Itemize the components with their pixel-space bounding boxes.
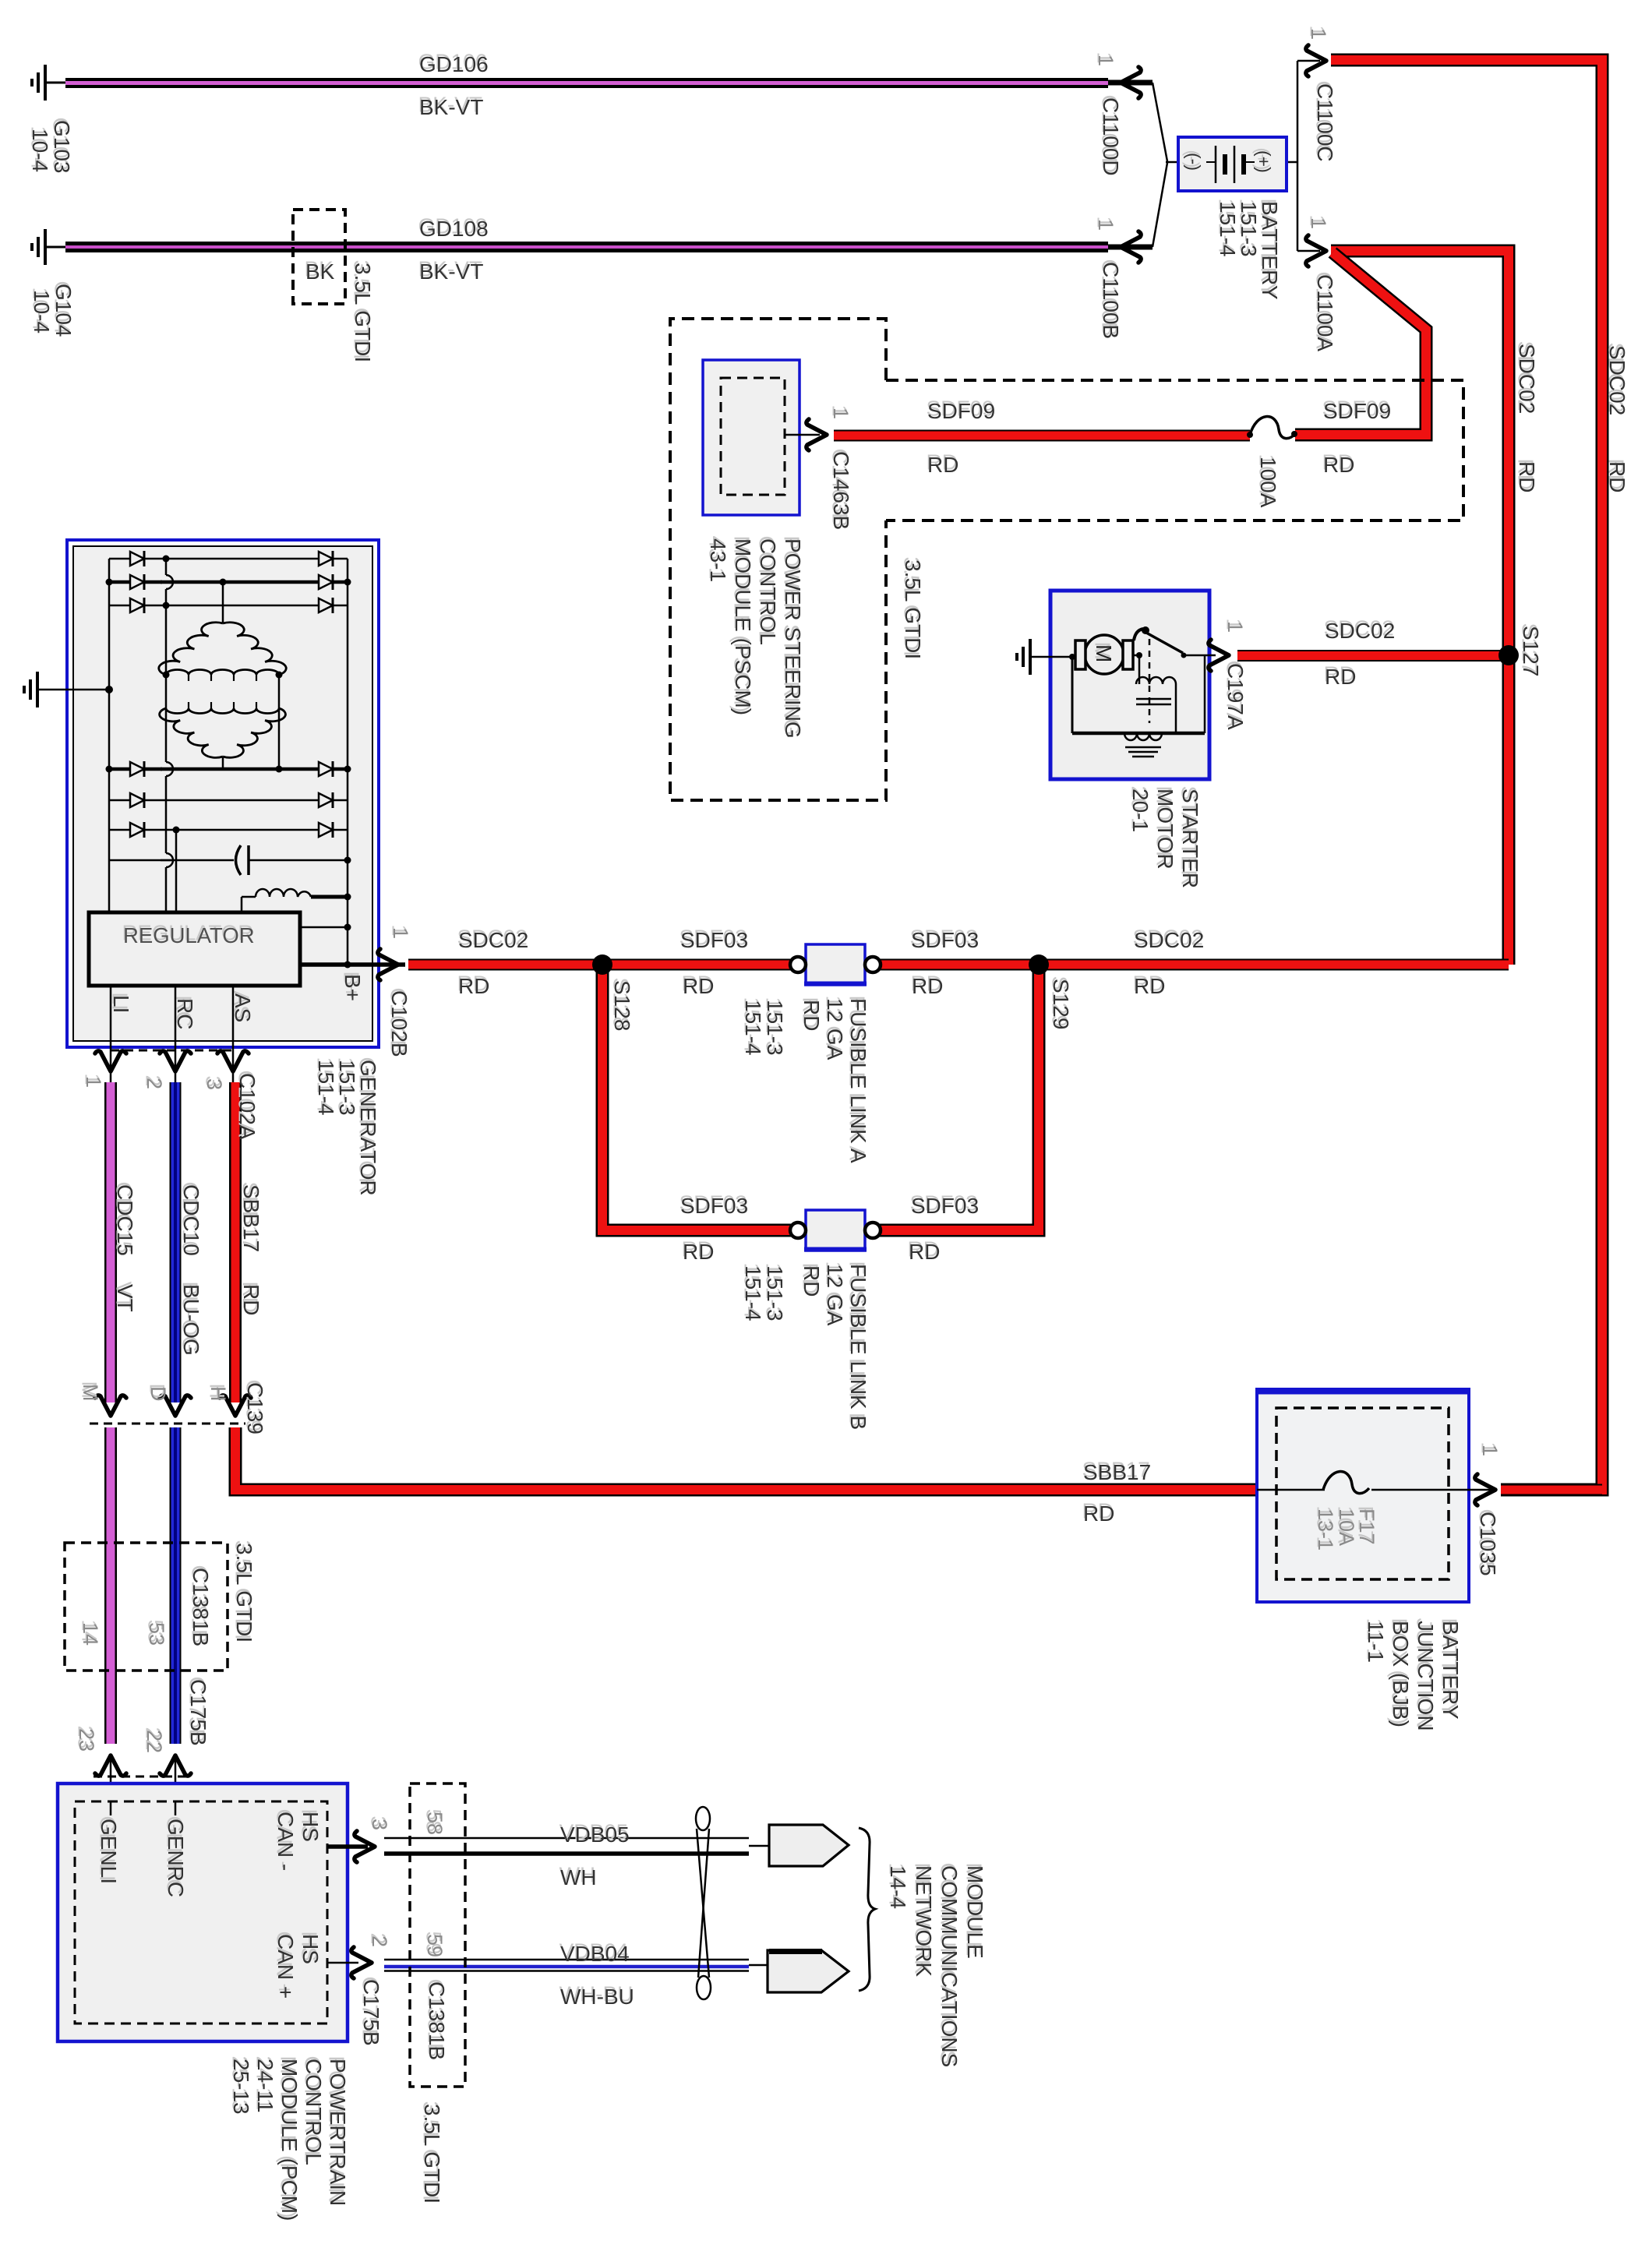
connector C1100A arrow	[1306, 235, 1326, 266]
svg-text:GD106: GD106	[419, 52, 489, 76]
svg-text:RD: RD	[1323, 453, 1354, 477]
svg-text:151-3: 151-3	[763, 1000, 787, 1056]
connector C102A dashed line and arrows	[95, 1050, 249, 1071]
svg-text:1: 1	[1478, 1445, 1502, 1456]
svg-text:RD: RD	[1134, 974, 1165, 998]
svg-text:BATTERY: BATTERY	[1438, 1621, 1463, 1720]
regulator box	[89, 912, 405, 1082]
wire SDC02 RD generator B+ main horizontal	[408, 959, 1509, 971]
wire battery positive leads	[1287, 61, 1320, 251]
svg-text:C1100D: C1100D	[1099, 97, 1123, 176]
svg-text:SDF03: SDF03	[911, 928, 979, 952]
wire battery negative leads	[1153, 83, 1178, 247]
wire SDC02 RD from C1100A to S127 vertical	[1331, 251, 1509, 965]
svg-text:RD: RD	[458, 974, 489, 998]
wire CDC15 VT vertical	[104, 1082, 117, 1744]
PSCM dashed enclosure 3.5L GTDI	[670, 319, 1463, 800]
fuse F17	[1323, 1472, 1369, 1494]
wire SBB17 RD from generator pin 3 to BJB	[235, 1082, 1257, 1490]
svg-text:BU-OG: BU-OG	[179, 1284, 203, 1356]
generator inductor	[242, 889, 348, 927]
connector C102B arrow B+	[378, 949, 398, 980]
fusible link A	[790, 944, 881, 985]
svg-text:C1100A: C1100A	[1313, 274, 1337, 351]
svg-text:C197A: C197A	[1223, 663, 1248, 730]
svg-text:GENLI: GENLI	[97, 1819, 121, 1884]
connector C175B arrow HS CAN + pin 2	[351, 1947, 372, 1978]
ground at generator	[24, 672, 37, 707]
fuse 100A symbol	[1247, 417, 1297, 439]
svg-text:11-1: 11-1	[1364, 1621, 1388, 1663]
svg-text:RC: RC	[173, 998, 197, 1029]
svg-text:59: 59	[423, 1934, 447, 1957]
PCM box	[58, 1784, 368, 2041]
svg-text:SDC02: SDC02	[458, 928, 528, 952]
connector C1381B dashed box upper	[65, 1543, 228, 1671]
svg-text:1: 1	[1223, 621, 1247, 633]
svg-text:C1381B: C1381B	[189, 1568, 213, 1646]
svg-text:M: M	[79, 1384, 102, 1402]
svg-text:HS: HS	[298, 1934, 323, 1964]
svg-text:10-4: 10-4	[30, 290, 54, 333]
svg-text:RD: RD	[1515, 461, 1539, 492]
splice dashed box BK	[293, 210, 345, 304]
starter motor box	[1030, 591, 1216, 779]
svg-text:3.5L GTDI: 3.5L GTDI	[901, 559, 925, 659]
svg-text:12 GA: 12 GA	[823, 998, 847, 1060]
svg-text:GD108: GD108	[419, 217, 489, 241]
svg-text:RD: RD	[1325, 665, 1356, 689]
svg-text:53: 53	[145, 1622, 168, 1646]
svg-text:CAN -: CAN -	[274, 1812, 298, 1871]
svg-text:MODULE (PSCM): MODULE (PSCM)	[731, 538, 755, 715]
connector C1100C arrow	[1306, 45, 1326, 76]
svg-text:23: 23	[75, 1728, 98, 1752]
connector C197A arrow	[1209, 640, 1229, 671]
splice S127	[1498, 645, 1519, 665]
svg-text:STARTER: STARTER	[1178, 789, 1202, 888]
svg-text:D: D	[146, 1386, 170, 1402]
svg-text:RD: RD	[800, 1000, 824, 1031]
svg-text:CONTROL: CONTROL	[302, 2059, 326, 2165]
wire SBB17 RD BJB to C1035 red stub	[1501, 1484, 1602, 1496]
svg-text:C139: C139	[243, 1382, 267, 1434]
svg-text:WH-BU: WH-BU	[560, 1985, 634, 2009]
svg-text:3.5L GTDI: 3.5L GTDI	[420, 2104, 444, 2203]
svg-text:1: 1	[829, 408, 852, 419]
wire GD106 BK-VT	[45, 78, 1153, 88]
svg-text:VT: VT	[113, 1284, 137, 1312]
network terminator pentagon VDB04	[768, 1950, 849, 1992]
svg-text:RD: RD	[1605, 461, 1629, 492]
wire SDC02 RD right vertical from C1100C	[1331, 60, 1602, 1490]
svg-text:VDB05: VDB05	[560, 1822, 630, 1847]
fusible link B	[790, 1210, 881, 1251]
svg-text:SDF03: SDF03	[680, 928, 748, 952]
svg-text:BOX (BJB): BOX (BJB)	[1389, 1621, 1413, 1727]
svg-text:1: 1	[1094, 219, 1117, 231]
svg-text:BK: BK	[305, 259, 335, 284]
junction dots generator	[106, 556, 351, 969]
svg-text:MOTOR: MOTOR	[1153, 789, 1177, 870]
svg-text:2: 2	[143, 1078, 166, 1089]
svg-text:POWER STEERING: POWER STEERING	[781, 538, 805, 739]
svg-text:S127: S127	[1519, 626, 1543, 676]
svg-text:S129: S129	[1049, 979, 1073, 1029]
svg-text:RD: RD	[1083, 1501, 1114, 1526]
svg-text:NETWORK: NETWORK	[912, 1865, 936, 1977]
svg-text:SDC02: SDC02	[1515, 344, 1539, 414]
svg-text:14-4: 14-4	[886, 1865, 910, 1909]
svg-text:151-3: 151-3	[763, 1265, 787, 1321]
ground G103	[32, 65, 45, 101]
svg-text:SBB17: SBB17	[239, 1184, 263, 1252]
PSCM module box	[703, 360, 820, 515]
svg-text:WH: WH	[560, 1865, 597, 1889]
svg-text:3.5L GTDI: 3.5L GTDI	[351, 263, 375, 362]
generator internal buses	[109, 559, 348, 965]
battery junction box BJB	[1257, 1389, 1493, 1602]
svg-text:1: 1	[1307, 217, 1330, 229]
svg-text:43-1: 43-1	[706, 538, 730, 582]
svg-text:100A: 100A	[1256, 457, 1280, 508]
svg-text:FUSIBLE LINK B: FUSIBLE LINK B	[846, 1264, 870, 1430]
svg-text:SDF03: SDF03	[680, 1194, 748, 1218]
connector C1463B arrow	[807, 419, 827, 450]
svg-text:G104: G104	[51, 284, 76, 337]
svg-text:SDF03: SDF03	[911, 1194, 979, 1218]
svg-text:(-): (-)	[1184, 153, 1204, 171]
connector C139 dashed line and arrows	[90, 1395, 251, 1424]
svg-text:151-4: 151-4	[741, 1000, 765, 1056]
wire CDC10 BU-OG vertical	[170, 1082, 182, 1744]
wire GD108 BK-VT	[45, 242, 1153, 252]
ground G104	[32, 229, 45, 265]
svg-text:CAN +: CAN +	[274, 1934, 298, 1999]
svg-text:RD: RD	[239, 1284, 263, 1315]
svg-text:CDC10: CDC10	[179, 1184, 203, 1256]
svg-text:SDF09: SDF09	[1323, 399, 1391, 423]
svg-text:COMMUNICATIONS: COMMUNICATIONS	[937, 1865, 962, 2067]
svg-text:C1381B: C1381B	[425, 1981, 449, 2060]
svg-text:RD: RD	[927, 453, 958, 477]
svg-text:G103: G103	[50, 120, 74, 174]
svg-text:151-4: 151-4	[741, 1265, 765, 1321]
svg-text:14: 14	[79, 1622, 102, 1646]
svg-text:POWERTRAIN: POWERTRAIN	[326, 2059, 350, 2206]
svg-text:C102B: C102B	[387, 990, 411, 1057]
svg-text:CDC15: CDC15	[113, 1184, 137, 1256]
svg-text:MODULE (PCM): MODULE (PCM)	[277, 2059, 302, 2221]
svg-text:(+): (+)	[1254, 150, 1274, 173]
svg-text:SBB17: SBB17	[1083, 1460, 1151, 1484]
svg-text:10A: 10A	[1335, 1508, 1358, 1546]
svg-text:C1035: C1035	[1476, 1512, 1500, 1576]
svg-text:HS: HS	[298, 1812, 323, 1842]
svg-text:3.5L GTDI: 3.5L GTDI	[232, 1543, 256, 1642]
twisted pair symbol	[696, 1807, 711, 1999]
svg-text:12 GA: 12 GA	[823, 1264, 847, 1326]
svg-text:JUNCTION: JUNCTION	[1414, 1621, 1438, 1731]
svg-text:FUSIBLE LINK A: FUSIBLE LINK A	[846, 998, 870, 1163]
generator delta winding lower	[160, 702, 286, 757]
svg-text:AS: AS	[231, 993, 255, 1022]
svg-text:C1463B: C1463B	[829, 451, 853, 530]
svg-text:C102A: C102A	[235, 1073, 259, 1140]
svg-text:25-13: 25-13	[229, 2059, 253, 2115]
svg-text:RD: RD	[909, 1240, 940, 1264]
svg-text:151-4: 151-4	[314, 1060, 338, 1116]
svg-text:GENRC: GENRC	[164, 1819, 188, 1897]
svg-text:S128: S128	[610, 980, 634, 1031]
svg-text:C175B: C175B	[186, 1679, 210, 1746]
svg-text:151-4: 151-4	[1216, 201, 1240, 257]
connector C1035 arrow	[1475, 1474, 1495, 1505]
svg-text:3: 3	[203, 1078, 226, 1090]
wire SDF09 RD diagonal from C1100A junction	[1295, 252, 1426, 435]
generator diodes left column	[130, 551, 144, 838]
svg-text:BK-VT: BK-VT	[419, 95, 483, 119]
connector C1100B arrow	[1121, 231, 1141, 263]
svg-text:10-4: 10-4	[28, 129, 52, 172]
svg-text:SDC02: SDC02	[1134, 928, 1204, 952]
svg-text:C1100B: C1100B	[1099, 262, 1123, 339]
wire VDB04 WH-BU	[384, 1960, 768, 1971]
svg-text:LI: LI	[109, 995, 133, 1013]
brace module communications network	[859, 1828, 875, 1991]
svg-text:1: 1	[1094, 55, 1117, 66]
svg-text:BK-VT: BK-VT	[419, 259, 483, 284]
svg-text:3: 3	[368, 1819, 391, 1830]
svg-text:H: H	[206, 1386, 230, 1402]
generator capacitor	[109, 845, 348, 875]
svg-text:M: M	[1092, 644, 1116, 662]
connector C175B arrows at PCM top	[94, 1755, 191, 1801]
connector C175B arrow HS CAN - pin 3	[355, 1831, 375, 1862]
wire VDB05 WH	[384, 1838, 769, 1854]
svg-text:C175B: C175B	[359, 1979, 383, 2046]
generator diodes right column	[319, 551, 333, 838]
svg-text:RD: RD	[683, 1240, 714, 1264]
svg-text:1: 1	[1307, 28, 1330, 40]
svg-text:CONTROL: CONTROL	[756, 538, 780, 645]
svg-text:24-11: 24-11	[253, 2059, 277, 2113]
svg-text:SDC02: SDC02	[1605, 345, 1629, 415]
svg-text:REGULATOR: REGULATOR	[123, 923, 255, 947]
svg-text:22: 22	[143, 1730, 166, 1753]
connector C1381B dashed box lower	[410, 1784, 465, 2087]
wire SDF09 RD from PSCM C1463B to fuse	[834, 430, 1250, 442]
svg-text:SDF09: SDF09	[927, 399, 995, 423]
svg-text:1: 1	[82, 1076, 105, 1088]
svg-text:SDC02: SDC02	[1325, 619, 1395, 643]
svg-text:20-1: 20-1	[1128, 789, 1153, 832]
svg-text:RD: RD	[912, 974, 943, 998]
svg-text:B+: B+	[341, 974, 365, 1001]
generator delta winding upper	[159, 623, 286, 681]
svg-text:RD: RD	[800, 1265, 824, 1297]
battery	[1178, 137, 1287, 191]
splice S129	[1029, 954, 1049, 975]
wire SDC02 RD starter to S127	[1237, 650, 1509, 662]
svg-text:RD: RD	[683, 974, 714, 998]
splice S128	[592, 954, 612, 975]
svg-text:VDB04: VDB04	[560, 1942, 630, 1966]
svg-text:13-1: 13-1	[1314, 1508, 1337, 1551]
generator box	[67, 540, 379, 1047]
connector C1100D arrow	[1121, 67, 1141, 98]
wire SDF03 RD loop S128 to link B to S129	[602, 970, 1039, 1230]
ground at starter	[1017, 639, 1030, 675]
svg-text:2: 2	[368, 1935, 391, 1947]
svg-text:58: 58	[423, 1812, 447, 1835]
svg-text:MODULE: MODULE	[963, 1865, 987, 1959]
svg-text:C1100C: C1100C	[1313, 83, 1337, 162]
network terminator pentagon VDB05	[769, 1825, 849, 1866]
svg-text:1: 1	[389, 927, 412, 939]
